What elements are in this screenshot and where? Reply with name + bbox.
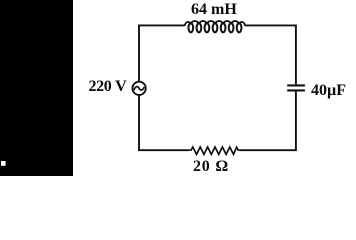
white square mark in margin bbox=[1, 161, 6, 166]
wire: bottom left segment from resistor to source bbox=[139, 95, 189, 150]
wire: top right segment from inductor bbox=[245, 25, 296, 84]
label 64 mH bbox=[191, 1, 237, 19]
AC source sine symbol bbox=[134, 87, 144, 91]
wire: right lower segment below capacitor bbox=[239, 91, 296, 150]
label 220 V bbox=[89, 78, 127, 96]
inductor L1 loops bbox=[188, 23, 241, 32]
label 40uF bbox=[311, 82, 346, 100]
AC source V1 circle bbox=[132, 82, 145, 95]
capacitor C1 plates bbox=[287, 84, 305, 86]
label 20 ohm bbox=[193, 158, 229, 176]
black margin column bbox=[0, 0, 73, 176]
inductor L1 64 mH : scalloped top line bbox=[185, 21, 246, 26]
wire: top left segment to inductor bbox=[139, 25, 185, 81]
resistor R1 zigzag bbox=[189, 147, 239, 154]
